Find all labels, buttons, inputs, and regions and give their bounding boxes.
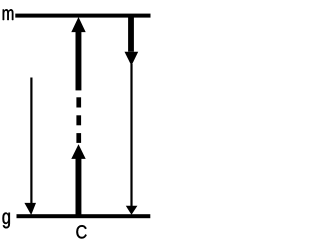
level g line: [17, 214, 151, 218]
pump arrow lower shaft (from level g): [76, 158, 82, 216]
right emission arrow thick arrowhead: [125, 52, 139, 66]
label C (pump transition): [76, 225, 86, 238]
pump arrow dash 1: [76, 97, 81, 107]
right emission arrow thick shaft (from level m): [128, 17, 134, 52]
label m: [3, 9, 14, 20]
right thin continuation line: [130, 64, 132, 207]
level m line: [15, 14, 150, 18]
left decay arrow (thin, m to g): [24, 78, 36, 216]
pump arrow mid arrowhead: [71, 144, 85, 159]
right thin arrowhead (at level g): [126, 206, 138, 215]
label g: [3, 213, 10, 229]
pump arrow upper shaft: [76, 31, 82, 91]
pump arrow dash 3: [76, 133, 81, 143]
pump arrow top arrowhead (at level m): [71, 17, 85, 32]
pump arrow dash 2: [76, 115, 81, 125]
